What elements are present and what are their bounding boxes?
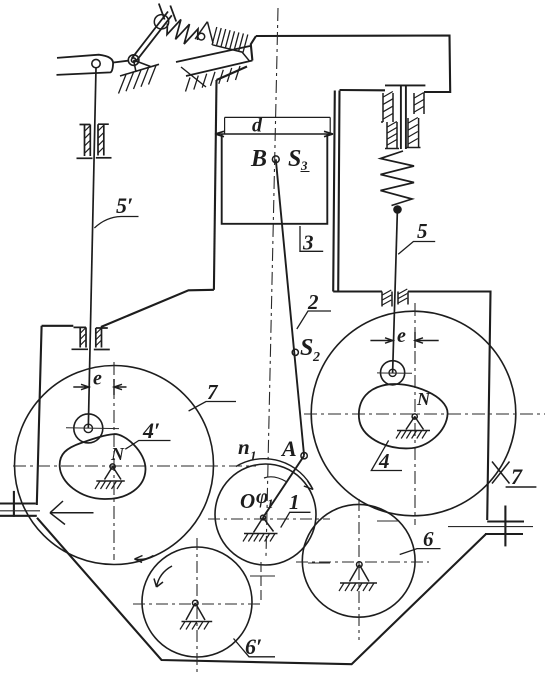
svg-text:O: O	[240, 489, 255, 513]
wheel 7 right	[311, 311, 516, 516]
piston top / dim line with arrows	[215, 131, 333, 136]
valve spring	[381, 151, 415, 206]
lever link (horizontal horn)	[57, 55, 129, 75]
circle on rocker	[154, 15, 168, 29]
pivot N left	[95, 464, 125, 489]
svg-text:5: 5	[417, 219, 428, 243]
rotation arrow on 7' rim	[135, 556, 154, 560]
svg-text:S: S	[288, 146, 301, 172]
svg-text:1: 1	[289, 490, 300, 514]
S2 point	[292, 349, 298, 355]
label 6	[400, 549, 441, 555]
anchor strokes at rocker top	[159, 4, 176, 22]
piston 3	[222, 134, 328, 224]
valve T-rod	[385, 85, 425, 149]
e dimension left	[73, 384, 126, 389]
label 5	[398, 242, 435, 255]
label 5'	[94, 217, 138, 229]
label 7 right	[492, 462, 510, 484]
spring end ball	[393, 205, 402, 214]
lower guide of rod 5'	[72, 327, 110, 349]
rocker arm link	[132, 12, 172, 62]
rod 5	[393, 214, 398, 373]
pivot N right	[396, 414, 430, 439]
label 4	[371, 440, 402, 470]
pivot O support	[243, 515, 278, 541]
svg-text:7: 7	[511, 464, 523, 489]
svg-text:6: 6	[423, 527, 434, 551]
svg-text:2: 2	[312, 350, 320, 365]
crank OA	[263, 456, 304, 518]
left feed arrow	[50, 501, 94, 525]
svg-text:4: 4	[378, 449, 390, 473]
label 3	[299, 226, 323, 251]
wheel 7' left	[15, 366, 214, 565]
main centerline	[266, 8, 278, 556]
svg-text:2: 2	[307, 290, 319, 314]
svg-text:N: N	[416, 389, 431, 409]
connecting rod 2 (B to A)	[276, 159, 304, 455]
pin A	[301, 453, 307, 459]
rotation arrow of 6'	[157, 566, 173, 587]
inclined spring	[167, 20, 198, 45]
svg-text:5′: 5′	[116, 193, 133, 218]
hatched anchor wedge	[195, 22, 249, 61]
mesh marks	[260, 562, 262, 600]
pin at lever end	[92, 59, 100, 67]
label 4'	[125, 441, 170, 450]
phi angle arc	[264, 477, 286, 482]
label 7 left	[189, 402, 236, 412]
svg-text:6′: 6′	[245, 634, 262, 659]
svg-text:N: N	[110, 444, 125, 464]
label 1	[281, 512, 311, 527]
upper guide of rod 5'	[77, 124, 112, 158]
svg-text:3: 3	[302, 231, 314, 255]
bracket channel	[176, 46, 252, 92]
roller right	[381, 361, 405, 385]
svg-text:e: e	[397, 325, 406, 347]
svg-text:A: A	[280, 436, 297, 461]
svg-text:S: S	[300, 335, 313, 361]
label 2	[297, 311, 331, 329]
svg-text:n: n	[238, 435, 250, 459]
svg-text:1: 1	[267, 496, 274, 511]
spring guide hatched blocks	[381, 92, 424, 149]
gear 6'	[142, 547, 252, 657]
svg-text:1: 1	[250, 448, 257, 463]
svg-text:7: 7	[207, 380, 219, 404]
pivot of 6	[339, 562, 377, 591]
e dimension right	[370, 338, 438, 343]
rod 5'	[88, 68, 96, 429]
svg-text:B: B	[250, 146, 267, 172]
fixed pivot of rocker	[119, 55, 160, 94]
svg-text:e: e	[93, 368, 102, 390]
gear circle 1	[215, 464, 316, 565]
svg-text:4′: 4′	[142, 418, 160, 443]
d dimension	[225, 117, 331, 133]
svg-text:d: d	[252, 115, 263, 137]
cam 4	[359, 384, 448, 448]
point B	[272, 156, 279, 163]
cam 4'	[60, 434, 146, 499]
pivot of 6'	[180, 600, 212, 629]
label 6'	[234, 639, 276, 657]
n1 rotation arc	[236, 459, 313, 490]
rod 5 frame guide	[382, 289, 408, 307]
roller left	[74, 414, 103, 443]
spring end pin	[198, 33, 205, 40]
svg-text:3: 3	[300, 158, 308, 173]
gear 6	[302, 504, 415, 617]
